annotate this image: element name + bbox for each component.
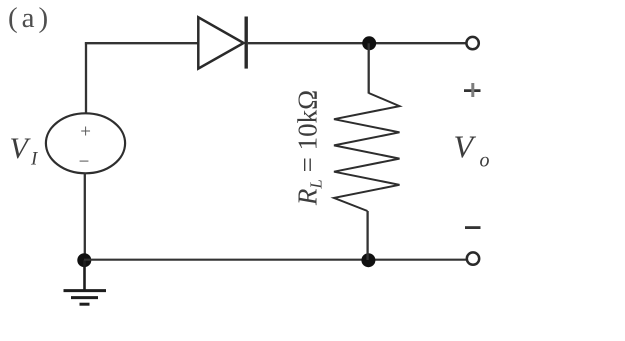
junction node bottom (rail / resistor) xyxy=(361,253,375,267)
wire top rail left segment (corner to diode anode) xyxy=(85,42,199,44)
wire top-left vertical (source top to top rail) xyxy=(85,42,87,113)
resistor RL top lead xyxy=(368,43,370,93)
resistor RL bottom lead xyxy=(366,211,368,260)
svg-text:(a): (a) xyxy=(8,2,52,34)
svg-text:RL = 10kΩ: RL = 10kΩ xyxy=(293,90,326,206)
wire source bottom to ground node xyxy=(84,173,86,260)
svg-text:+: + xyxy=(80,122,91,143)
diode D1 cathode bar xyxy=(244,17,247,69)
ground symbol bar 1 xyxy=(64,289,107,292)
voltage source VI ellipse xyxy=(46,113,125,173)
output plus sign xyxy=(464,83,481,97)
ground symbol bar 2 xyxy=(71,296,98,299)
wire bottom rail (ground node to output terminal) xyxy=(84,259,467,261)
resistor RL zigzag body xyxy=(334,93,400,211)
output terminal top xyxy=(466,37,478,49)
junction node top (rail / resistor) xyxy=(362,36,376,50)
wire top rail right segment (cathode to output terminal) xyxy=(248,42,467,44)
svg-text:V: V xyxy=(454,129,477,165)
svg-text:−: − xyxy=(79,152,90,173)
diode D1 triangle xyxy=(198,17,243,68)
ground symbol stem xyxy=(83,260,86,290)
junction node ground xyxy=(77,253,91,267)
output minus sign xyxy=(465,226,481,229)
svg-text:o: o xyxy=(480,150,490,172)
svg-text:I: I xyxy=(30,149,39,170)
svg-text:V: V xyxy=(10,132,32,165)
ground symbol bar 3 xyxy=(80,303,90,306)
output terminal bottom xyxy=(467,252,479,264)
label RL = 10k ohm (rotated) xyxy=(293,90,326,206)
